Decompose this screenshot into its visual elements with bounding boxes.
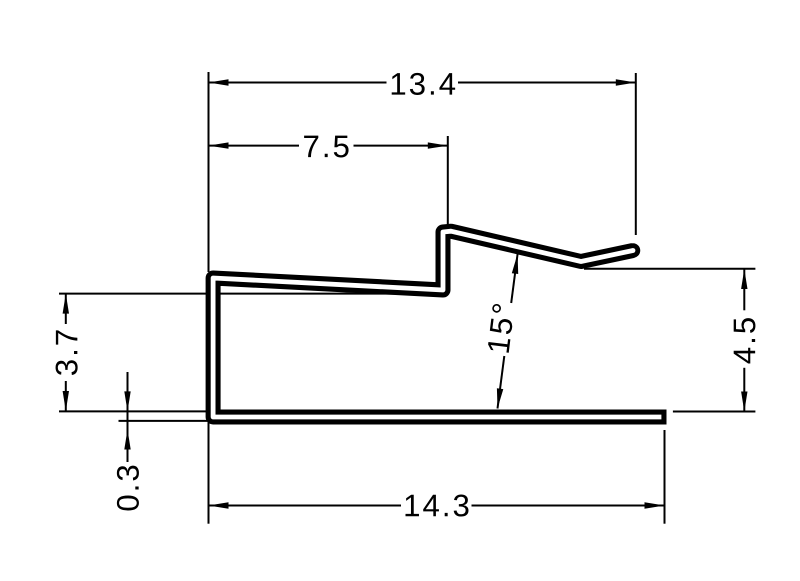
value label 3.7 [56, 330, 78, 375]
extension line: left vertical shared by 13.4 and 7.5 [208, 72, 210, 272]
arrowhead 4.5 top [741, 269, 747, 289]
arrowhead 13.4 right [616, 79, 636, 85]
extension line: horizontal bottom reference for 0.3 [119, 420, 215, 422]
sheet-metal profile: white core round end at hook tip [631, 248, 636, 253]
arrowhead 0.3 lower (points up) [124, 430, 130, 450]
arrowhead 0.3 upper (points down) [124, 391, 130, 411]
dimension line 14.3 (right segment) [472, 505, 665, 507]
extension line: right vertical for 13.4 [635, 73, 637, 235]
sheet-metal profile: outer black outline [213, 231, 666, 417]
value label 13.4 [392, 73, 455, 95]
dimension line 13.4 (left segment) [209, 82, 387, 84]
dimension line 13.4 (right segment) [458, 82, 636, 84]
value label 7.5 [304, 136, 348, 158]
sheet-metal profile: white core making the double-line wall [213, 231, 661, 417]
value label 4.5 [734, 318, 756, 363]
dimension line 3.7 (bottom segment) [65, 381, 67, 411]
value label 14.3 [406, 494, 469, 516]
dimension line 7.5 (left segment) [209, 145, 300, 147]
extension line: horizontal bottom reference for 4.5 [673, 411, 756, 413]
arrowhead 15 deg top (points up to flange underside) [512, 254, 518, 274]
dimension line 3.7 (top segment) [65, 294, 67, 324]
arrowhead 15 deg bottom (points down to base leg) [497, 388, 503, 408]
value label 0.3 [117, 466, 139, 511]
arrowhead 3.7 top [63, 294, 69, 314]
extension line: horizontal top reference for 3.7 [59, 293, 437, 295]
arrowhead 7.5 left [209, 142, 229, 148]
arrowhead 7.5 right [428, 142, 448, 148]
dimension line 14.3 (left segment) [209, 505, 402, 507]
extension line: right vertical for 14.3 [664, 430, 666, 524]
sheet-metal profile: rounded hook tip cap [626, 243, 641, 258]
arrowhead 13.4 left [209, 79, 229, 85]
dimension line 4.5 (bottom segment) [743, 368, 745, 412]
arrowhead 3.7 bottom [63, 391, 69, 411]
value label 15 deg [488, 304, 512, 353]
extension line: middle vertical for 7.5 [447, 136, 449, 232]
angle leader 15 deg (upper segment) [511, 254, 517, 303]
dimension line 0.3 (vertical with outside arrows) [127, 372, 129, 462]
arrowhead 14.3 right [645, 502, 665, 508]
dimension line 7.5 (right segment) [354, 145, 448, 147]
angle leader 15 deg (lower segment) [498, 356, 505, 409]
arrowhead 4.5 bottom [741, 392, 747, 412]
extension line: horizontal shared bottom of 3.7 / top of 0.3 [59, 410, 212, 412]
dimension line 4.5 (top segment) [743, 269, 745, 310]
extension line: horizontal top reference for 4.5 [584, 268, 755, 270]
extension line: left vertical for 14.3 [208, 411, 210, 524]
arrowhead 14.3 left [209, 502, 229, 508]
